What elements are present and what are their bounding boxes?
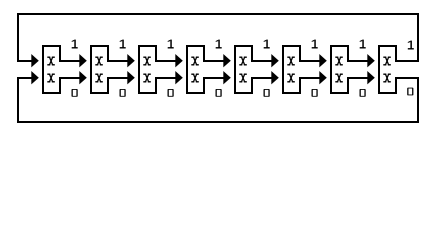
label 0 output: [407, 88, 413, 96]
arrowhead stage 3 top: [127, 54, 135, 67]
label 0 after stage 3: [168, 89, 174, 97]
wire stage 8 output top: [395, 60, 419, 62]
stage 6 bit x bottom: [287, 74, 295, 83]
stage 3 bit x bottom: [143, 74, 151, 83]
wire stage 5 to stage 6 bottom: [251, 77, 272, 79]
arrowhead input bottom: [31, 71, 39, 84]
stage 5 box: [234, 45, 253, 94]
wire stage 3 to stage 4 top: [155, 60, 176, 62]
label 0 after stage 7: [360, 89, 366, 97]
label 0 after stage 5: [264, 89, 270, 97]
arrowhead stage 5 top: [223, 54, 231, 67]
wire feedback right upper: [417, 13, 419, 62]
wire stage 3 to stage 4 bottom: [155, 77, 176, 79]
wire feedback bottom: [17, 121, 419, 123]
label 1 after stage 3: [168, 40, 174, 49]
label 1 after stage 6: [312, 40, 318, 49]
label 1 output: [408, 41, 414, 50]
stage 8 bit x bottom: [383, 74, 391, 83]
arrowhead stage 3 bottom: [127, 71, 135, 84]
wire stage 5 to stage 6 top: [251, 60, 272, 62]
stage 8 box: [378, 45, 397, 94]
wire stage 1 to stage 2 top: [59, 60, 80, 62]
arrowhead stage 8 bottom: [367, 71, 375, 84]
stage 7 bit x top: [335, 57, 343, 66]
label 1 after stage 1: [72, 40, 78, 49]
label 1 after stage 2: [120, 40, 126, 49]
arrowhead stage 8 top: [367, 54, 375, 67]
arrowhead stage 7 top: [319, 54, 327, 67]
stage 7 box: [330, 45, 349, 94]
arrowhead stage 2 top: [79, 54, 87, 67]
wire stage 2 to stage 3 bottom: [107, 77, 128, 79]
stage 5 bit x bottom: [239, 74, 247, 83]
wire input top: [17, 60, 32, 62]
wire feedback top: [17, 13, 419, 15]
stage 5 bit x top: [239, 57, 247, 66]
stage 6 bit x top: [287, 57, 295, 66]
wire stage 8 output bottom: [395, 77, 419, 79]
label 0 after stage 6: [312, 89, 318, 97]
stage 4 box: [186, 45, 205, 94]
arrowhead stage 6 bottom: [271, 71, 279, 84]
arrowhead stage 2 bottom: [79, 71, 87, 84]
arrowhead stage 5 bottom: [223, 71, 231, 84]
wire stage 4 to stage 5 top: [203, 60, 224, 62]
arrowhead input top: [31, 54, 39, 67]
wire feedback left lower: [17, 77, 19, 123]
wire feedback left upper: [17, 13, 19, 62]
arrowhead stage 4 top: [175, 54, 183, 67]
stage 2 bit x top: [95, 57, 103, 66]
stage 1 box: [42, 45, 61, 94]
wire stage 2 to stage 3 top: [107, 60, 128, 62]
stage 2 bit x bottom: [95, 74, 103, 83]
stage 4 bit x bottom: [191, 74, 199, 83]
label 1 after stage 7: [360, 40, 366, 49]
wire feedback right lower: [417, 77, 419, 123]
label 0 after stage 2: [120, 89, 126, 97]
wire input bottom: [17, 77, 32, 79]
stage 4 bit x top: [191, 57, 199, 66]
stage 8 bit x top: [383, 57, 391, 66]
arrowhead stage 7 bottom: [319, 71, 327, 84]
label 0 after stage 1: [72, 89, 78, 97]
label 0 after stage 4: [216, 89, 222, 97]
stage 3 bit x top: [143, 57, 151, 66]
label 1 after stage 4: [216, 40, 222, 49]
wire stage 6 to stage 7 bottom: [299, 77, 320, 79]
label 1 after stage 5: [264, 40, 270, 49]
stage 7 bit x bottom: [335, 74, 343, 83]
wire stage 1 to stage 2 bottom: [59, 77, 80, 79]
stage 2 box: [90, 45, 109, 94]
arrowhead stage 4 bottom: [175, 71, 183, 84]
wire stage 7 to stage 8 bottom: [347, 77, 368, 79]
wire stage 6 to stage 7 top: [299, 60, 320, 62]
stage 3 box: [138, 45, 157, 94]
arrowhead stage 6 top: [271, 54, 279, 67]
stage 6 box: [282, 45, 301, 94]
stage 1 bit x top: [47, 57, 55, 66]
stage 1 bit x bottom: [47, 74, 55, 83]
wire stage 4 to stage 5 bottom: [203, 77, 224, 79]
wire stage 7 to stage 8 top: [347, 60, 368, 62]
